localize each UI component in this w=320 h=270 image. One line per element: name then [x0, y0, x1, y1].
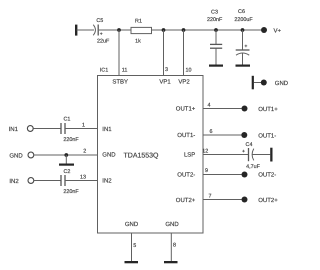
svg-text:5: 5 [133, 243, 136, 249]
ground C3 [209, 65, 223, 67]
junction dot C6 branch [241, 28, 245, 32]
wire C6 to ground [242, 54, 244, 65]
svg-text:OUT2+: OUT2+ [176, 197, 196, 204]
svg-text:OUT1-: OUT1- [258, 132, 276, 139]
wire IN2 to C2 [34, 180, 61, 182]
terminal OUT2- [242, 172, 248, 178]
op-amp IC1 TDA1553Q body [98, 76, 204, 234]
svg-text:C4: C4 [246, 142, 253, 148]
junction dot pin3 branch [162, 28, 166, 32]
svg-text:IN1: IN1 [102, 126, 112, 133]
svg-text:LSP: LSP [184, 151, 195, 158]
terminal GND left [28, 152, 34, 158]
wire GND to pin 2 [34, 154, 98, 156]
ground pin 5 [125, 261, 139, 263]
wire pin 6 to OUT1- [203, 134, 242, 136]
wire rail to C3 [215, 30, 217, 44]
wire pin 8 to ground [170, 233, 172, 261]
svg-text:1k: 1k [135, 38, 141, 44]
terminal bar LSP [270, 148, 272, 162]
wire down to pin 11 [118, 30, 120, 76]
svg-text:OUT1+: OUT1+ [258, 106, 278, 113]
wire down to pin 3 [163, 30, 165, 76]
wire pin 5 to ground [131, 233, 133, 261]
terminal GND [261, 80, 267, 86]
junction dot gnd branch [64, 153, 68, 157]
svg-text:4: 4 [208, 103, 211, 109]
svg-text:C6: C6 [238, 9, 245, 15]
svg-text:IN2: IN2 [9, 178, 19, 185]
wire pin 12 to C4 [203, 154, 248, 156]
wire pin 7 to OUT2+ [203, 199, 242, 201]
capacitor C6 [236, 45, 250, 56]
wire C3 to ground [215, 48, 217, 64]
ground C6 [236, 65, 251, 67]
svg-text:220nF: 220nF [63, 137, 79, 143]
ground terminal bar (right) [252, 76, 254, 90]
ground left [59, 164, 74, 166]
supply rail wire R1 to V+ [152, 29, 262, 31]
svg-text:OUT1-: OUT1- [177, 132, 195, 139]
input terminal bar (top left supply input) [75, 25, 77, 36]
svg-text:C5: C5 [96, 18, 103, 24]
svg-text:VP2: VP2 [178, 79, 190, 86]
svg-text:2: 2 [83, 149, 86, 155]
terminal IN2 [28, 178, 34, 184]
junction dot C3 branch [214, 28, 218, 32]
terminal V+ [261, 27, 267, 33]
svg-text:TDA1553Q: TDA1553Q [123, 152, 159, 159]
svg-text:2200uF: 2200uF [234, 17, 253, 23]
svg-text:IN1: IN1 [9, 126, 19, 133]
svg-text:V+: V+ [274, 27, 282, 34]
junction dot pin10 branch [182, 28, 186, 32]
svg-text:1: 1 [82, 122, 85, 128]
terminal OUT1- [241, 132, 247, 138]
svg-text:VP1: VP1 [159, 79, 171, 86]
wire C4 to terminal [252, 154, 270, 156]
svg-text:10: 10 [186, 67, 192, 73]
wire C2 to pin 13 [65, 180, 98, 182]
svg-text:STBY: STBY [112, 79, 128, 86]
svg-text:GND: GND [102, 151, 116, 158]
svg-text:220nF: 220nF [63, 189, 79, 195]
capacitor C4 [242, 148, 254, 161]
svg-text:22uF: 22uF [97, 39, 110, 45]
svg-text:IC1: IC1 [100, 67, 108, 73]
resistor R1 [131, 27, 152, 33]
svg-text:OUT1+: OUT1+ [176, 105, 196, 112]
capacitor C3 [210, 44, 222, 48]
capacitor C5 [93, 25, 102, 36]
svg-text:C3: C3 [211, 10, 218, 16]
svg-text:GND: GND [125, 221, 139, 228]
svg-text:GND: GND [9, 152, 23, 159]
capacitor C2 [61, 175, 65, 186]
wire pin 9 to OUT2- [203, 174, 242, 176]
svg-text:12: 12 [202, 149, 208, 155]
svg-text:11: 11 [122, 67, 128, 73]
junction dot pin11 branch [117, 28, 121, 32]
svg-text:OUT2-: OUT2- [258, 172, 276, 179]
svg-text:4,7uF: 4,7uF [246, 164, 260, 170]
svg-text:C1: C1 [63, 117, 70, 123]
wire C5 to R1 [99, 29, 131, 31]
terminal IN1 [27, 126, 33, 132]
wire pin 4 to OUT1+ [203, 108, 242, 110]
svg-text:3: 3 [165, 67, 168, 73]
wire terminal to C5 [77, 29, 95, 31]
wire down to pin 10 [183, 30, 185, 76]
wire junction to ground [65, 155, 67, 164]
ground pin 8 [164, 261, 178, 263]
wire IN1 to C1 [33, 128, 61, 130]
svg-text:R1: R1 [135, 19, 142, 25]
svg-text:GND: GND [275, 80, 289, 87]
svg-text:C2: C2 [63, 169, 70, 175]
wire C1 to pin 1 [65, 128, 98, 130]
terminal OUT2+ [242, 197, 248, 203]
svg-text:GND: GND [165, 221, 179, 228]
svg-text:8: 8 [173, 243, 176, 249]
svg-text:OUT2-: OUT2- [177, 171, 195, 178]
wire gnd bar to dot [254, 82, 261, 84]
svg-text:220nF: 220nF [207, 17, 223, 23]
capacitor C1 [61, 123, 65, 134]
svg-text:IN2: IN2 [102, 178, 112, 185]
svg-text:13: 13 [80, 175, 86, 181]
svg-text:7: 7 [209, 194, 212, 200]
svg-text:OUT2+: OUT2+ [258, 197, 278, 204]
wire rail to C6 [242, 30, 244, 50]
terminal OUT1+ [242, 106, 248, 112]
svg-text:9: 9 [205, 168, 208, 174]
svg-text:6: 6 [210, 129, 213, 135]
